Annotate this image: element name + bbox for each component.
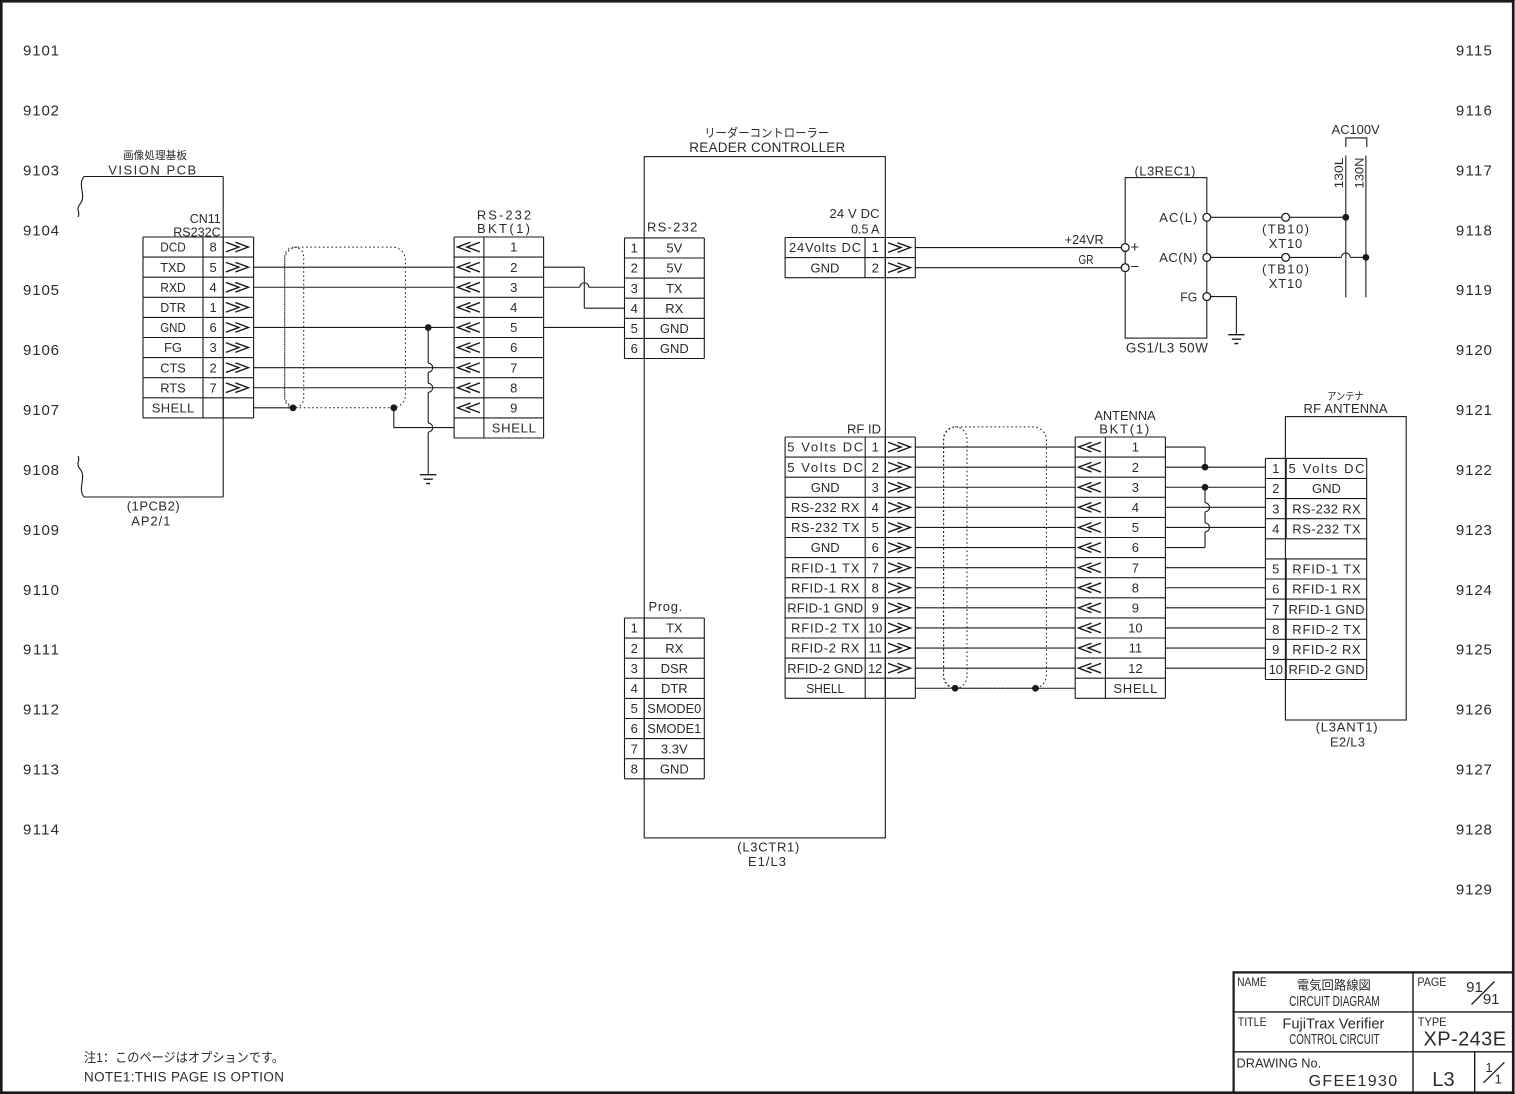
svg-text:9104: 9104 [23,222,59,239]
label リーダーコントローラー / READER CONTROLLER [689,125,845,155]
svg-text:4: 4 [209,280,216,295]
svg-text:6: 6 [209,320,216,335]
svg-text:電気回路線図: 電気回路線図 [1297,978,1371,993]
svg-text:XT10: XT10 [1269,236,1303,251]
svg-text:91: 91 [1466,979,1483,996]
svg-text:RS-232: RS-232 [647,220,697,235]
svg-text:9126: 9126 [1456,702,1492,719]
svg-text:7: 7 [1272,602,1279,617]
svg-text:6: 6 [631,721,638,736]
svg-text:3: 3 [631,661,638,676]
svg-text:VISION PCB: VISION PCB [108,163,196,178]
svg-text:3: 3 [631,281,638,296]
svg-text:CONTROL CIRCUIT: CONTROL CIRCUIT [1289,1031,1380,1048]
svg-text:4: 4 [1272,521,1279,536]
svg-text:10: 10 [868,621,882,636]
svg-text:9112: 9112 [23,702,59,719]
svg-text:7: 7 [209,380,216,395]
svg-text:DSR: DSR [661,661,688,676]
svg-text:RFID-2 RX: RFID-2 RX [1292,642,1361,657]
svg-text:9111: 9111 [23,642,59,659]
svg-text:TX: TX [666,281,683,296]
svg-text:リーダーコントローラー: リーダーコントローラー [704,125,829,140]
wire BKT pin8 to antenna pin6 [1165,587,1265,589]
svg-text:2: 2 [631,641,638,656]
wire BKT pin6 joins pin3 (GND) with hops [1165,487,1209,547]
title block TITLE cell [1238,1015,1385,1048]
wire BKT pin1 joins pin2 (5 Volts DC) [1165,447,1205,467]
svg-text:10: 10 [1128,621,1142,636]
svg-text:5 Volts DC: 5 Volts DC [787,460,863,475]
svg-text:2: 2 [209,360,216,375]
wire RF ID pin 7 to ANTENNA BKT pin 7 [915,567,1075,569]
svg-text:注1：このページはオプションです。: 注1：このページはオプションです。 [84,1050,284,1065]
svg-text:GND: GND [660,321,689,336]
svg-text:4: 4 [510,300,517,315]
svg-text:RX: RX [665,301,683,316]
svg-text:1: 1 [872,240,879,255]
svg-text:1: 1 [510,240,517,255]
wire RXD (pin 4) to RS-232 BKT(1) pin 3 [254,286,455,288]
title block NAME cell [1237,975,1380,1010]
svg-text:1: 1 [1272,461,1279,476]
svg-text:7: 7 [510,360,517,375]
connector 24 V DC 0.5 A on reader controller [785,206,915,278]
label (1PCB2) AP2/1 [127,499,180,529]
svg-text:BKT(1): BKT(1) [477,221,530,236]
svg-text:1: 1 [872,440,879,455]
wire RTS (pin 7) to RS-232 BKT(1) pin 8 [254,387,455,389]
connector RF ID on reader controller [785,422,915,699]
svg-text:9124: 9124 [1456,582,1492,599]
svg-text:24Volts DC: 24Volts DC [789,240,861,255]
wire RF ID pin 6 to ANTENNA BKT pin 6 [915,547,1075,549]
AC100V source label and bracket [1332,122,1380,147]
svg-text:AC(L): AC(L) [1159,210,1197,225]
wire RF ID pin 10 to ANTENNA BKT pin 10 [915,627,1075,629]
svg-text:9108: 9108 [23,462,59,479]
svg-text:9128: 9128 [1456,821,1492,838]
junction shield left (antenna cable) [952,685,958,691]
READER CONTROLLER box (L3CTR1) [644,157,885,838]
svg-text:9117: 9117 [1456,162,1492,179]
svg-text:SHELL: SHELL [492,421,536,436]
svg-text:9: 9 [1272,642,1279,657]
svg-text:9106: 9106 [23,342,59,359]
RF ANTENNA box (L3ANT1) [1285,391,1406,721]
svg-text:XT10: XT10 [1269,276,1303,291]
svg-text:5: 5 [631,701,638,716]
wire RF ID pin 1 to ANTENNA BKT pin 1 [915,446,1075,448]
svg-text:5 Volts DC: 5 Volts DC [1289,461,1365,476]
wire FG to ground [1211,297,1237,335]
svg-text:1: 1 [209,300,216,315]
svg-text:GND: GND [811,260,840,275]
svg-text:E1/L3: E1/L3 [748,854,786,869]
svg-text:−: − [1130,259,1139,276]
junction shield to BKT SHELL [391,405,397,411]
VISION PCB board outline (1PCB2) [78,177,223,498]
svg-text:6: 6 [872,540,879,555]
svg-text:9122: 9122 [1456,462,1492,479]
title block [1234,972,1513,1092]
junction AC(L)-130L [1343,214,1349,220]
svg-text:E2/L3: E2/L3 [1330,735,1365,750]
svg-text:9105: 9105 [23,282,59,299]
wire BKT pin2 to antenna pin1 [1165,466,1265,468]
svg-text:RS-232 TX: RS-232 TX [1292,521,1361,536]
svg-text:2: 2 [1272,481,1279,496]
svg-text:9101: 9101 [23,43,59,60]
svg-text:5: 5 [631,321,638,336]
svg-text:3: 3 [510,280,517,295]
svg-text:GND: GND [660,761,689,776]
svg-text:5: 5 [872,520,879,535]
wire BKT pin5 to antenna pin4 [1165,526,1265,528]
svg-text:RS-232 RX: RS-232 RX [1292,501,1361,516]
svg-text:4: 4 [631,681,638,696]
wire CTS (pin 2) to RS-232 BKT(1) pin 7 [254,367,455,369]
svg-text:+: + [1130,239,1139,256]
terminal AC(L) [1159,210,1210,225]
svg-text:7: 7 [872,560,879,575]
ground symbol (RS-232 shield) [420,475,436,484]
svg-text:SMODE0: SMODE0 [647,701,701,716]
wire TXD (pin 5) to RS-232 BKT(1) pin 2 [254,266,455,268]
wire shield to BKT(1) SHELL [394,408,454,428]
svg-text:AC100V: AC100V [1332,122,1380,137]
svg-text:12: 12 [868,661,882,676]
connector ANTENNA BKT(1) [1075,408,1165,698]
wire RF ID pin 11 to ANTENNA BKT pin 11 [915,647,1075,649]
wire BKT pin3 to reader TX (with hop) [544,283,625,288]
svg-text:RFID-1 TX: RFID-1 TX [1292,562,1361,577]
svg-text:9116: 9116 [1456,102,1492,119]
wire BKT pin7 to antenna pin5 [1165,567,1265,569]
svg-text:2: 2 [872,260,879,275]
connector RS-232 on reader controller [625,220,705,359]
svg-text:8: 8 [631,761,638,776]
svg-text:GND: GND [811,540,840,555]
wire RF ID pin 12 to ANTENNA BKT pin 12 [915,667,1075,669]
svg-text:SHELL: SHELL [152,400,195,415]
net 130N [1354,156,1366,298]
svg-text:AC(N): AC(N) [1159,250,1197,265]
label 画像処理基板 / VISION PCB [108,148,196,178]
terminal AC(N) [1159,250,1210,265]
junction shield right (antenna cable) [1033,685,1039,691]
label (TB10) XT10 lower [1262,261,1309,291]
svg-text:RFID-2 TX: RFID-2 TX [791,621,860,636]
svg-text:12: 12 [1128,661,1142,676]
wire BKT pin12 to antenna pin10 [1165,667,1265,669]
power supply box (L3REC1) GS1/L3 50W [1125,164,1208,356]
svg-text:GND: GND [660,341,689,356]
svg-text:(TB10): (TB10) [1262,261,1309,276]
svg-text:9121: 9121 [1456,402,1492,419]
svg-text:(TB10): (TB10) [1262,222,1309,237]
terminal - of L3REC1 [1121,259,1139,276]
svg-text:91: 91 [1483,991,1500,1008]
svg-text:9123: 9123 [1456,522,1492,539]
svg-text:9107: 9107 [23,402,59,419]
svg-text:GFEE1930: GFEE1930 [1309,1073,1398,1090]
wire BKT pin11 to antenna pin9 [1165,647,1265,649]
svg-text:RF ID: RF ID [847,422,881,437]
svg-text:4: 4 [872,500,879,515]
svg-text:24 V DC: 24 V DC [830,206,880,221]
svg-text:5V: 5V [666,261,682,276]
wire RF ID pin 2 to ANTENNA BKT pin 2 [915,466,1075,468]
svg-text:NOTE1:THIS PAGE IS OPTION: NOTE1:THIS PAGE IS OPTION [84,1070,284,1085]
svg-text:9: 9 [872,600,879,615]
svg-text:AP2/1: AP2/1 [131,514,170,529]
svg-text:2: 2 [1132,460,1139,475]
svg-text:5: 5 [510,320,517,335]
svg-text:(L3CTR1): (L3CTR1) [737,840,799,855]
ground symbol (FG) [1228,335,1244,344]
svg-text:RFID-1 GND: RFID-1 GND [1289,602,1365,617]
wire +24VR [915,232,1121,248]
svg-text:11: 11 [1129,641,1143,656]
svg-text:L3: L3 [1432,1069,1454,1091]
svg-text:READER CONTROLLER: READER CONTROLLER [689,140,845,155]
svg-text:CTS: CTS [160,360,186,375]
svg-text:DRAWING No.: DRAWING No. [1237,1056,1322,1071]
svg-text:FG: FG [164,340,182,355]
svg-text:RX: RX [665,641,683,656]
svg-text:5V: 5V [666,241,682,256]
svg-text:8: 8 [872,580,879,595]
label (L3CTR1) E1/L3 [737,840,799,870]
terminal FG [1180,290,1210,305]
svg-text:+24VR: +24VR [1065,232,1104,247]
svg-text:3.3V: 3.3V [661,741,688,756]
net 130L [1334,156,1346,298]
svg-text:RS-232 RX: RS-232 RX [791,500,860,515]
svg-text:TYPE: TYPE [1418,1015,1447,1029]
svg-text:3: 3 [872,480,879,495]
svg-text:1: 1 [1132,440,1139,455]
wire BKT pin9 to antenna pin7 [1165,607,1265,609]
svg-text:130L: 130L [1334,157,1346,189]
svg-text:6: 6 [510,340,517,355]
connector on RF ANTENNA [1265,458,1366,679]
svg-text:3: 3 [1272,501,1279,516]
svg-text:TX: TX [666,621,683,636]
svg-text:BKT(1): BKT(1) [1099,421,1149,436]
svg-text:4: 4 [631,301,638,316]
svg-text:0.5 A: 0.5 A [851,222,880,237]
svg-text:7: 7 [631,741,638,756]
wire RF ID pin 3 to ANTENNA BKT pin 3 [915,486,1075,488]
svg-text:GS1/L3 50W: GS1/L3 50W [1126,341,1208,356]
svg-text:GND: GND [160,320,186,335]
title block TYPE cell XP-243E [1418,1015,1506,1051]
svg-text:DTR: DTR [661,681,688,696]
wire BKT pin2 to reader RX (crossover) [544,267,625,308]
svg-text:5: 5 [1272,562,1279,577]
svg-text:1: 1 [631,621,638,636]
junction BKT1/2 [1202,464,1208,470]
svg-text:8: 8 [209,240,216,255]
svg-text:8: 8 [1272,622,1279,637]
junction on shield (left) [290,405,296,411]
wire BKT pin5 to reader GND [544,326,625,328]
svg-text:(1PCB2): (1PCB2) [127,499,180,514]
wire RF ID pin 9 to ANTENNA BKT pin 9 [915,607,1075,609]
label (L3ANT1) E2/L3 [1316,720,1378,750]
svg-text:9110: 9110 [23,582,59,599]
svg-text:TITLE: TITLE [1238,1015,1267,1029]
svg-text:9113: 9113 [23,762,59,779]
title block PAGE cell 91/91 [1417,975,1499,1008]
wire AC(L) to terminal block XT10 and 130L [1211,213,1346,221]
wire AC(N) to terminal block XT10 and 130N (hop over 130L) [1211,253,1366,261]
svg-text:RFID-2 GND: RFID-2 GND [787,661,863,676]
cable shield loop (antenna cable) [944,427,1047,688]
wire RF ID pin 8 to ANTENNA BKT pin 8 [915,587,1075,589]
wire BKT pin10 to antenna pin8 [1165,627,1265,629]
junction GND wire [425,325,431,331]
connector Prog. on reader controller [625,599,705,779]
svg-text:Prog.: Prog. [649,599,683,614]
svg-text:9119: 9119 [1456,282,1492,299]
svg-text:5: 5 [1132,520,1139,535]
svg-text:130N: 130N [1354,158,1366,189]
wire GND to ground with hops [428,328,433,475]
svg-text:RS-232 TX: RS-232 TX [791,520,860,535]
svg-text:画像処理基板: 画像処理基板 [123,148,187,162]
svg-text:9102: 9102 [23,102,59,119]
title block sheet 1/1 [1484,1060,1505,1087]
svg-text:GND: GND [1312,481,1341,496]
svg-text:DTR: DTR [160,300,186,315]
svg-text:6: 6 [631,341,638,356]
svg-text:RFID-2 GND: RFID-2 GND [1289,662,1365,677]
title block DRAWING No. cell GFEE1930 [1237,1056,1398,1091]
svg-text:5: 5 [209,260,216,275]
svg-text:3: 3 [1132,480,1139,495]
svg-text:6: 6 [1272,582,1279,597]
svg-text:9125: 9125 [1456,642,1492,659]
connector CN11 RS232C on VISION PCB [143,211,254,418]
svg-text:FG: FG [1180,290,1197,305]
junction BKT3/6 [1202,484,1208,490]
svg-text:2: 2 [631,261,638,276]
wire BKT pin3 to antenna pin2 [1165,486,1265,488]
label (TB10) XT10 upper [1262,222,1309,252]
svg-text:2: 2 [510,260,517,275]
svg-text:8: 8 [1132,580,1139,595]
svg-text:GND: GND [811,480,840,495]
svg-text:9: 9 [510,400,517,415]
svg-text:RFID-1 GND: RFID-1 GND [787,600,863,615]
svg-text:SHELL: SHELL [1113,681,1157,696]
wire RF ID pin 5 to ANTENNA BKT pin 5 [915,526,1075,528]
svg-text:9127: 9127 [1456,762,1492,779]
wire SHELL of CN11 to cable shield [254,407,293,409]
svg-text:7: 7 [1132,560,1139,575]
svg-text:10: 10 [1269,662,1283,677]
svg-text:RFID-1 TX: RFID-1 TX [791,560,860,575]
svg-text:9120: 9120 [1456,342,1492,359]
svg-text:RFID-2 TX: RFID-2 TX [1292,622,1361,637]
svg-text:GR: GR [1079,252,1094,267]
svg-text:FujiTrax Verifier: FujiTrax Verifier [1282,1016,1384,1033]
svg-text:(L3ANT1): (L3ANT1) [1316,720,1378,735]
svg-text:RXD: RXD [160,280,186,295]
svg-text:SMODE1: SMODE1 [647,721,701,736]
svg-text:RFID-2 RX: RFID-2 RX [791,641,860,656]
svg-text:9114: 9114 [23,821,59,838]
wire SHELL to SHELL (antenna cable) [915,687,1075,689]
svg-text:PAGE: PAGE [1417,975,1446,989]
svg-text:4: 4 [1132,500,1139,515]
svg-text:6: 6 [1132,540,1139,555]
svg-text:2: 2 [872,460,879,475]
wire BKT pin4 to antenna pin3 [1165,506,1265,508]
svg-text:9129: 9129 [1456,881,1492,898]
wire RF ID pin 4 to ANTENNA BKT pin 4 [915,506,1075,508]
svg-text:SHELL: SHELL [806,681,844,696]
junction AC(N)-130N [1363,255,1369,261]
svg-text:NAME: NAME [1237,975,1267,989]
wire GR [915,252,1121,268]
svg-text:9103: 9103 [23,162,59,179]
svg-text:CIRCUIT DIAGRAM: CIRCUIT DIAGRAM [1289,993,1380,1010]
svg-text:9109: 9109 [23,522,59,539]
svg-text:RFID-1 RX: RFID-1 RX [791,580,860,595]
svg-text:11: 11 [868,641,882,656]
wire GND (pin 6) to RS-232 BKT(1) pin 5 [254,326,455,328]
svg-text:9115: 9115 [1456,43,1492,60]
svg-text:9118: 9118 [1456,222,1492,239]
svg-text:8: 8 [510,380,517,395]
cable shield loop (RS-232 cable) [285,247,406,408]
svg-text:TXD: TXD [160,260,186,275]
svg-text:1: 1 [1495,1072,1502,1087]
svg-text:3: 3 [209,340,216,355]
connector RS-232 BKT(1) [454,208,543,439]
svg-text:XP-243E: XP-243E [1424,1029,1507,1051]
svg-text:1: 1 [631,241,638,256]
svg-text:RTS: RTS [160,380,186,395]
svg-text:DCD: DCD [160,240,186,255]
svg-text:RF ANTENNA: RF ANTENNA [1304,401,1388,416]
svg-text:9: 9 [1132,600,1139,615]
svg-text:RFID-1 RX: RFID-1 RX [1292,582,1361,597]
terminal + of L3REC1 [1121,239,1139,256]
svg-text:1: 1 [1485,1060,1492,1075]
svg-text:5 Volts DC: 5 Volts DC [787,440,863,455]
svg-text:(L3REC1): (L3REC1) [1135,164,1196,179]
